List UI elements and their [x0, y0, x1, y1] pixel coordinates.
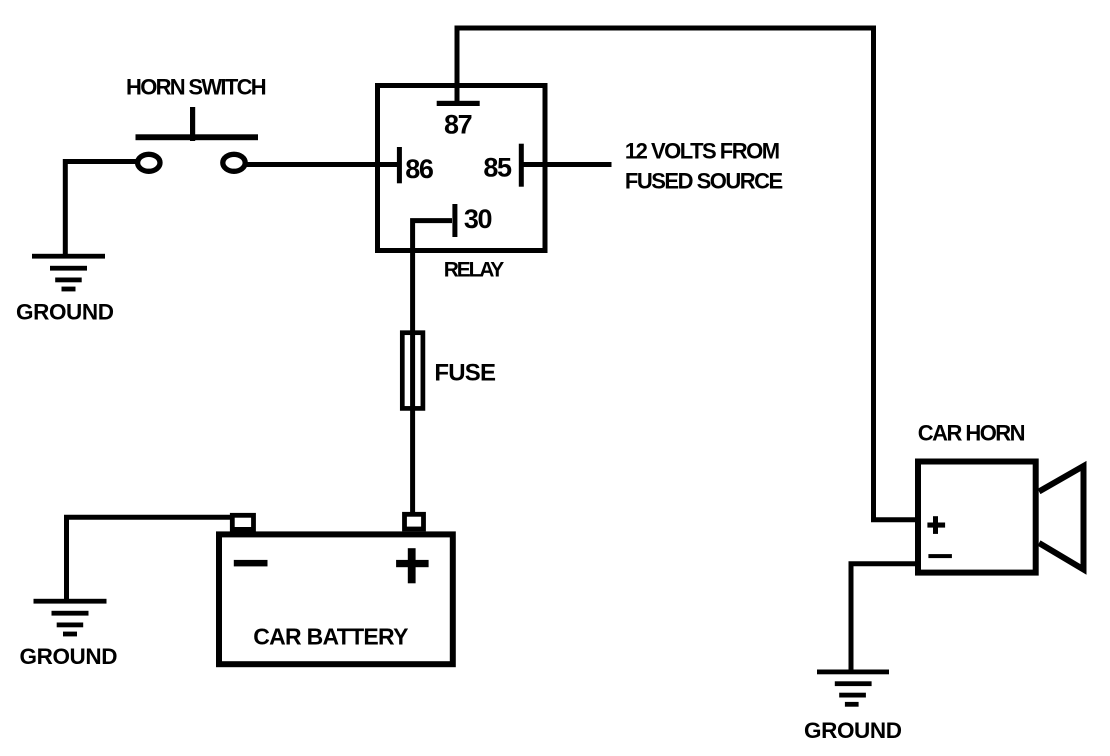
wire: horn switch right contact to relay pin 86: [246, 162, 400, 167]
car horn plus sign: [927, 523, 945, 528]
battery plus sign: [396, 560, 429, 567]
svg-text:86: 86: [405, 154, 434, 184]
battery minus sign: [234, 560, 268, 567]
svg-text:30: 30: [464, 204, 492, 234]
svg-text:87: 87: [444, 110, 472, 140]
svg-text:HORN SWITCH: HORN SWITCH: [126, 74, 266, 99]
svg-text:RELAY: RELAY: [444, 259, 504, 282]
svg-text:12 VOLTS FROM: 12 VOLTS FROM: [625, 139, 779, 164]
wire: battery negative to bottom-left ground: [67, 517, 232, 601]
ground symbol (bottom right): [817, 670, 889, 707]
wire: relay pin 87 up, across top, down right side to car horn +: [457, 28, 918, 520]
horn switch actuator (T bar): [190, 107, 195, 141]
relay box: [378, 86, 546, 251]
car battery box: [219, 534, 453, 664]
relay pin 30 bar: [452, 204, 457, 237]
wire: car horn negative to bottom-right ground: [851, 564, 918, 671]
battery terminal (positive post): [405, 514, 424, 529]
svg-text:FUSED SOURCE: FUSED SOURCE: [625, 169, 783, 194]
fuse body: [402, 333, 423, 409]
car horn box: [918, 462, 1036, 573]
wire: relay pin 85 to fused source stub: [521, 162, 612, 167]
svg-text:CAR BATTERY: CAR BATTERY: [253, 623, 408, 649]
car horn minus sign: [928, 554, 952, 558]
svg-text:GROUND: GROUND: [16, 299, 114, 324]
battery terminal (negative post): [232, 515, 253, 529]
wire: horn switch left contact to top-left ground: [65, 162, 137, 257]
wire: relay pin 30 down through fuse to battery +: [413, 221, 452, 516]
svg-text:GROUND: GROUND: [20, 644, 118, 669]
relay pin 85 bar: [519, 144, 524, 187]
svg-text:GROUND: GROUND: [804, 718, 902, 743]
relay pin 86 bar: [397, 147, 402, 183]
svg-text:CAR HORN: CAR HORN: [918, 420, 1025, 445]
ground symbol (top left): [32, 254, 105, 292]
ground symbol (bottom left): [34, 599, 107, 637]
svg-text:FUSE: FUSE: [434, 359, 496, 386]
svg-text:85: 85: [483, 153, 512, 183]
horn switch right contact: [223, 154, 245, 171]
car horn speaker cone: [1039, 466, 1084, 570]
relay pin 87 bar: [437, 101, 480, 106]
horn switch left contact: [138, 154, 160, 171]
